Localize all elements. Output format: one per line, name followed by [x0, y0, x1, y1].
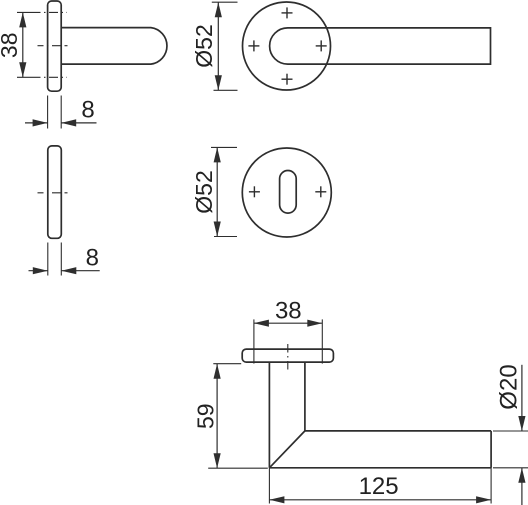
view B: key rose plate side view (middle-left)	[48, 146, 62, 238]
dimension 8 (view B) line with arrows	[29, 270, 100, 272]
svg-text:Ø20: Ø20	[496, 364, 523, 409]
view D: rose edge-on bar (bottom view top)	[242, 349, 333, 362]
dimension 8 (view A) extension lines	[48, 96, 62, 129]
view C: key rose circle (middle-right)	[242, 148, 331, 237]
view C: keyhole slot	[280, 171, 297, 214]
dimension 38 (view A) line with arrows	[22, 12, 24, 77]
dimension D52 middle: label	[191, 170, 217, 213]
svg-text:8: 8	[81, 97, 94, 124]
dimension D52 top: label	[191, 24, 217, 67]
view A front: screw cross right	[316, 40, 327, 51]
view A front: rose circle (top-right)	[243, 2, 331, 90]
svg-text:Ø52: Ø52	[191, 24, 217, 67]
svg-text:Ø52: Ø52	[191, 170, 217, 213]
view A front: lever neck and bar	[270, 28, 491, 64]
view B: centerline	[38, 192, 68, 194]
dimension 59 label	[192, 403, 218, 429]
dimension D20 extension lines	[493, 431, 528, 468]
view D: vertical centerline through rose	[287, 344, 289, 371]
dimension 38 (view D) label	[275, 297, 302, 324]
view C: screw cross right	[315, 186, 326, 197]
dimension 125 label	[359, 473, 399, 500]
dimension 125 extension lines	[269, 468, 491, 504]
dimension 8 (view A) line with arrows	[25, 122, 97, 124]
dimension 38 (view D) extension lines	[254, 319, 322, 363]
view A: lever grip side view	[61, 28, 167, 65]
svg-text:8: 8	[86, 245, 99, 272]
dimension 59 extension lines	[208, 364, 268, 469]
svg-text:59: 59	[192, 403, 218, 429]
dimension 38 (view A) label	[0, 33, 22, 59]
dimension 8 (view B) extension lines	[48, 243, 62, 276]
dimension D52 middle: line with arrows	[216, 147, 218, 236]
view A front: screw cross bottom	[282, 74, 293, 85]
dimension 8 (view A) label	[81, 97, 94, 124]
svg-text:38: 38	[275, 297, 302, 324]
svg-text:38: 38	[0, 33, 22, 59]
view A: grip axis centerline	[38, 45, 68, 47]
view A front: screw cross left	[248, 40, 259, 51]
dimension D52 middle: extension lines	[211, 147, 237, 236]
dimension 38 (view D) line with arrows	[254, 322, 322, 324]
view D: lever neck right edge	[304, 362, 306, 431]
view D: grip bottom edge	[269, 467, 491, 469]
view C: screw cross left	[249, 186, 260, 197]
dimension D20 line with arrows	[521, 365, 523, 505]
dimension 125 line with arrows	[269, 499, 491, 501]
svg-text:125: 125	[359, 473, 399, 500]
view A: top screw centerline	[17, 11, 67, 13]
dimension 8 (view B) label	[86, 245, 99, 272]
view A front: screw cross top	[282, 7, 293, 18]
view D: grip right end	[490, 431, 492, 468]
dimension D52 top: line with arrows	[217, 2, 219, 90]
view A: rose plate side view (top-left)	[48, 1, 62, 91]
view A: bottom screw centerline	[17, 76, 67, 78]
view D: miter joint line	[269, 431, 305, 468]
view D: grip top edge	[305, 430, 491, 432]
dimension D52 top: extension lines	[212, 2, 238, 90]
dimension 59 line with arrows	[216, 364, 218, 469]
view D: lever neck left edge	[268, 362, 270, 468]
dimension D20 label	[496, 364, 523, 409]
